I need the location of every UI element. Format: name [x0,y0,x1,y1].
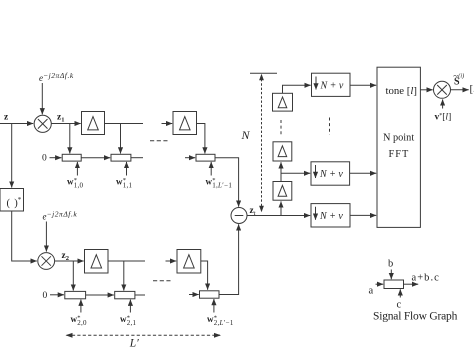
svg-text:a+b.c: a+b.c [412,273,440,284]
wire D4 down to tap T2L [201,261,208,290]
delay C1 [273,182,292,201]
legend wire output [404,283,419,285]
multiplier M3 [434,81,451,98]
wire C3 to DS1 [283,85,311,93]
wire DS3 to FFT [350,214,376,216]
wire w2L up arrow [213,299,215,313]
legend wire b [390,270,392,280]
wire zero to T20 [50,294,64,296]
wire T1L to subtractor [215,158,239,207]
svg-text:N: N [241,128,251,142]
svg-text:0: 0 [42,154,47,164]
tap T11 [111,154,131,161]
ellipsis downsamplers [329,118,331,135]
svg-text:2,1: 2,1 [127,319,137,327]
svg-text:0: 0 [43,291,48,301]
wire D1 out [105,123,144,125]
wire exp1 to M1 [41,83,43,114]
downsampler DS3 [311,204,350,227]
wire M2 to D3 [55,260,84,262]
svg-text:( )*: ( )* [7,196,22,209]
wire T11 out [131,157,143,159]
downsampler DS2 [311,162,350,185]
dimension Lprime arrow [66,333,222,338]
svg-text:tone [l]: tone [l] [386,85,418,97]
label w21 [120,314,137,327]
wire conjugate to M2 [12,211,37,261]
wire T10 to T11 [81,157,110,159]
wire into D4 [166,260,177,262]
wire zero to T10 [50,157,62,159]
wire v to M3 [442,99,444,108]
label w11 [116,177,133,190]
svg-text:e−j2πΔf.k: e−j2πΔf.k [39,71,74,83]
wire branch tee down to conjugate [11,124,13,188]
delay C2 [273,142,292,161]
label w1L [206,177,233,190]
svg-text:z: z [4,113,9,123]
wire w21 up arrow [129,300,131,313]
svg-text:L′: L′ [129,337,139,348]
downsampler DS1 [312,73,351,96]
wire w10 up arrow [76,162,78,176]
delay D3 [85,250,109,274]
label w2L [207,314,234,327]
label w20 [71,314,88,327]
wire tee down to tap T20 [72,261,74,291]
tap T1L [196,154,215,161]
wire T20 to T21 [86,294,114,296]
svg-text:N + ν: N + ν [319,211,343,222]
svg-text:Signal Flow Graph: Signal Flow Graph [373,310,458,322]
svg-text:v*[l]: v*[l] [435,112,452,122]
svg-text:FFT: FFT [389,149,410,160]
svg-text:b: b [388,259,393,270]
svg-text:1,1: 1,1 [123,182,133,190]
dimension N dashed arrow [259,74,264,212]
tap T20 [65,291,86,298]
wire D2 down to tap T1L [197,124,205,154]
wire w11 up arrow [126,162,128,176]
ellipsis branch2 [153,280,171,282]
wire into T1L [185,157,195,159]
dimension N top bar [250,72,277,74]
delay D4 [177,250,201,274]
wire into T2L [189,294,199,296]
svg-text:(i): (i) [458,72,464,79]
wire tee down to tap T21 [123,261,125,291]
legend wire c [399,289,401,297]
wire M1 to D1 [51,123,80,125]
svg-text:2,0: 2,0 [77,319,87,327]
svg-text:N + ν: N + ν [319,169,343,180]
wire DS2 to FFT [350,172,377,174]
wire D3 out [108,260,145,262]
wire T2L to subtractor [219,224,239,294]
label s tilde output [453,71,474,95]
wire tee to DS2 [281,172,310,174]
wire w20 up arrow [80,300,82,313]
delay D1 [82,112,105,135]
wire into D2 [162,123,173,125]
svg-text:z1: z1 [57,113,64,124]
tap T10 [62,154,81,161]
svg-text:c: c [397,300,402,311]
wire chain ellipsis [280,120,282,136]
delay D2 [173,112,197,135]
FFT block [377,67,420,227]
subtractor S1 [231,208,247,224]
wire subtractor to DS3 [247,215,310,217]
wire zt tee up to C1 [280,201,282,215]
wire exp2 to M2 [45,222,47,252]
wire tee down to tap T11 [120,124,122,154]
svg-text:2,L′−1: 2,L′−1 [214,319,234,327]
wire FFT to M3 [420,89,432,91]
legend wire a [376,283,384,285]
ellipsis branch1 [150,140,168,142]
svg-text:1,L′−1: 1,L′−1 [212,182,232,190]
multiplier M1 [34,115,51,132]
svg-text:[l]: [l] [470,83,474,95]
svg-text:N + ν: N + ν [320,81,344,92]
svg-text:e−j2πΔf.k: e−j2πΔf.k [43,209,78,221]
wire w1L up arrow [210,162,212,176]
conjugate box [0,189,24,212]
svg-text:1,0: 1,0 [74,182,84,190]
wire DS1 to FFT [350,84,376,86]
svg-text:N point: N point [383,133,414,144]
wire M3 output [451,89,469,91]
label w10 [67,177,84,190]
wire tee down to tap T10 [69,124,71,154]
svg-text:a: a [369,286,374,297]
legend box [384,280,404,289]
wire z input [0,123,33,125]
multiplier M2 [38,253,55,270]
tap T21 [115,291,135,298]
delay C3 [273,93,293,111]
tap T2L [200,291,220,298]
wire C1 to C2 [280,162,282,181]
wire T21 out [135,294,145,296]
